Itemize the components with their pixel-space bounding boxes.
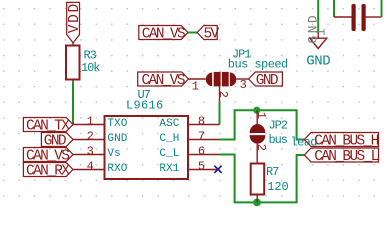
svg-text:RXO: RXO <box>107 163 127 175</box>
svg-text:TXO: TXO <box>107 118 127 130</box>
global label CAN_BUS_L <box>304 148 378 165</box>
JP1 pin 1 wire <box>189 78 206 80</box>
global label GND (JP1 row) <box>249 72 283 89</box>
svg-text:GND: GND <box>306 54 330 70</box>
ground symbol <box>310 31 327 49</box>
svg-text:ASC: ASC <box>159 118 179 130</box>
power label 5V <box>197 26 219 43</box>
global label CAN_VS (top) <box>139 26 188 43</box>
wire C_H net <box>220 110 305 139</box>
svg-text:CAN_BUS_H: CAN_BUS_H <box>314 133 378 149</box>
svg-text:Vs: Vs <box>107 148 120 160</box>
svg-text:CAN_VS: CAN_VS <box>142 73 185 89</box>
svg-text:C_H: C_H <box>159 133 179 145</box>
jumper JP2 <box>250 110 268 163</box>
svg-text:5V: 5V <box>204 26 220 42</box>
no-connect X on pin 5 <box>214 166 221 173</box>
JP1 pin 2 stub <box>219 87 221 102</box>
jumper JP1 body <box>206 72 237 87</box>
svg-text:1: 1 <box>192 79 199 93</box>
svg-text:CAN_RX: CAN_RX <box>26 163 70 179</box>
pin 2 GND <box>73 129 128 144</box>
svg-text:GND: GND <box>107 133 127 145</box>
svg-text:GND: GND <box>256 73 278 89</box>
svg-text:C_L: C_L <box>159 148 179 160</box>
svg-text:3: 3 <box>87 144 94 158</box>
JP1 pin 3 wire <box>236 78 248 80</box>
wire C_L net <box>220 155 305 203</box>
svg-text:CAN_BUS_L: CAN_BUS_L <box>314 149 378 165</box>
global label GND <box>41 133 73 150</box>
wire capacitor left <box>333 0 335 17</box>
svg-text:3: 3 <box>240 78 247 92</box>
wire capacitor right <box>381 0 383 17</box>
pin 6 C_L <box>159 144 219 159</box>
svg-text:JP2: JP2 <box>269 119 288 133</box>
svg-text:120: 120 <box>267 180 288 194</box>
power flag VDD <box>67 2 83 43</box>
pin 7 C_H <box>159 129 219 144</box>
svg-text:CAN_VS: CAN_VS <box>142 26 185 42</box>
pin 3 Vs <box>73 144 121 159</box>
svg-text:6: 6 <box>198 144 205 158</box>
svg-text:2: 2 <box>254 144 268 151</box>
svg-text:1: 1 <box>254 112 268 119</box>
svg-text:2: 2 <box>216 91 230 98</box>
svg-text:5: 5 <box>198 159 205 173</box>
pin 1 TXO <box>73 114 128 129</box>
pin 5 RX1 <box>159 159 219 174</box>
global label CAN_TX <box>23 118 73 135</box>
svg-text:R7: R7 <box>266 165 279 179</box>
svg-text:1: 1 <box>87 114 94 128</box>
svg-text:8: 8 <box>198 114 205 128</box>
svg-text:2: 2 <box>87 129 94 143</box>
wire CAN_VS to 5V <box>188 32 197 34</box>
wire to GND symbol (top right) <box>317 0 319 31</box>
IC U7 L9616 body <box>105 116 189 179</box>
global label CAN_RX <box>23 163 73 180</box>
svg-text:bus: bus <box>269 133 288 147</box>
svg-text:RX1: RX1 <box>159 163 179 175</box>
resistor R7 <box>251 164 265 203</box>
svg-text:7: 7 <box>198 129 205 143</box>
svg-text:L9616: L9616 <box>126 99 164 113</box>
svg-text:4: 4 <box>87 159 94 173</box>
junction bottom <box>253 199 261 207</box>
global label CAN_VS (JP1 row) <box>138 72 189 89</box>
resistor R3 <box>66 43 80 82</box>
capacitor C <box>334 4 382 31</box>
junction top <box>253 107 260 114</box>
global label CAN_BUS_H <box>304 133 378 150</box>
wire JP1 pin2 to ASC <box>219 102 221 125</box>
svg-text:VDD: VDD <box>67 2 83 33</box>
global label CAN_VS <box>23 148 73 165</box>
pin 8 ASC <box>159 114 219 129</box>
svg-text:bus speed: bus speed <box>228 58 288 72</box>
svg-text:1: 1 <box>314 27 329 36</box>
wire R3 to CAN_TX node <box>72 82 74 125</box>
svg-text:10k: 10k <box>81 61 100 75</box>
pin 4 RXO <box>73 159 128 174</box>
